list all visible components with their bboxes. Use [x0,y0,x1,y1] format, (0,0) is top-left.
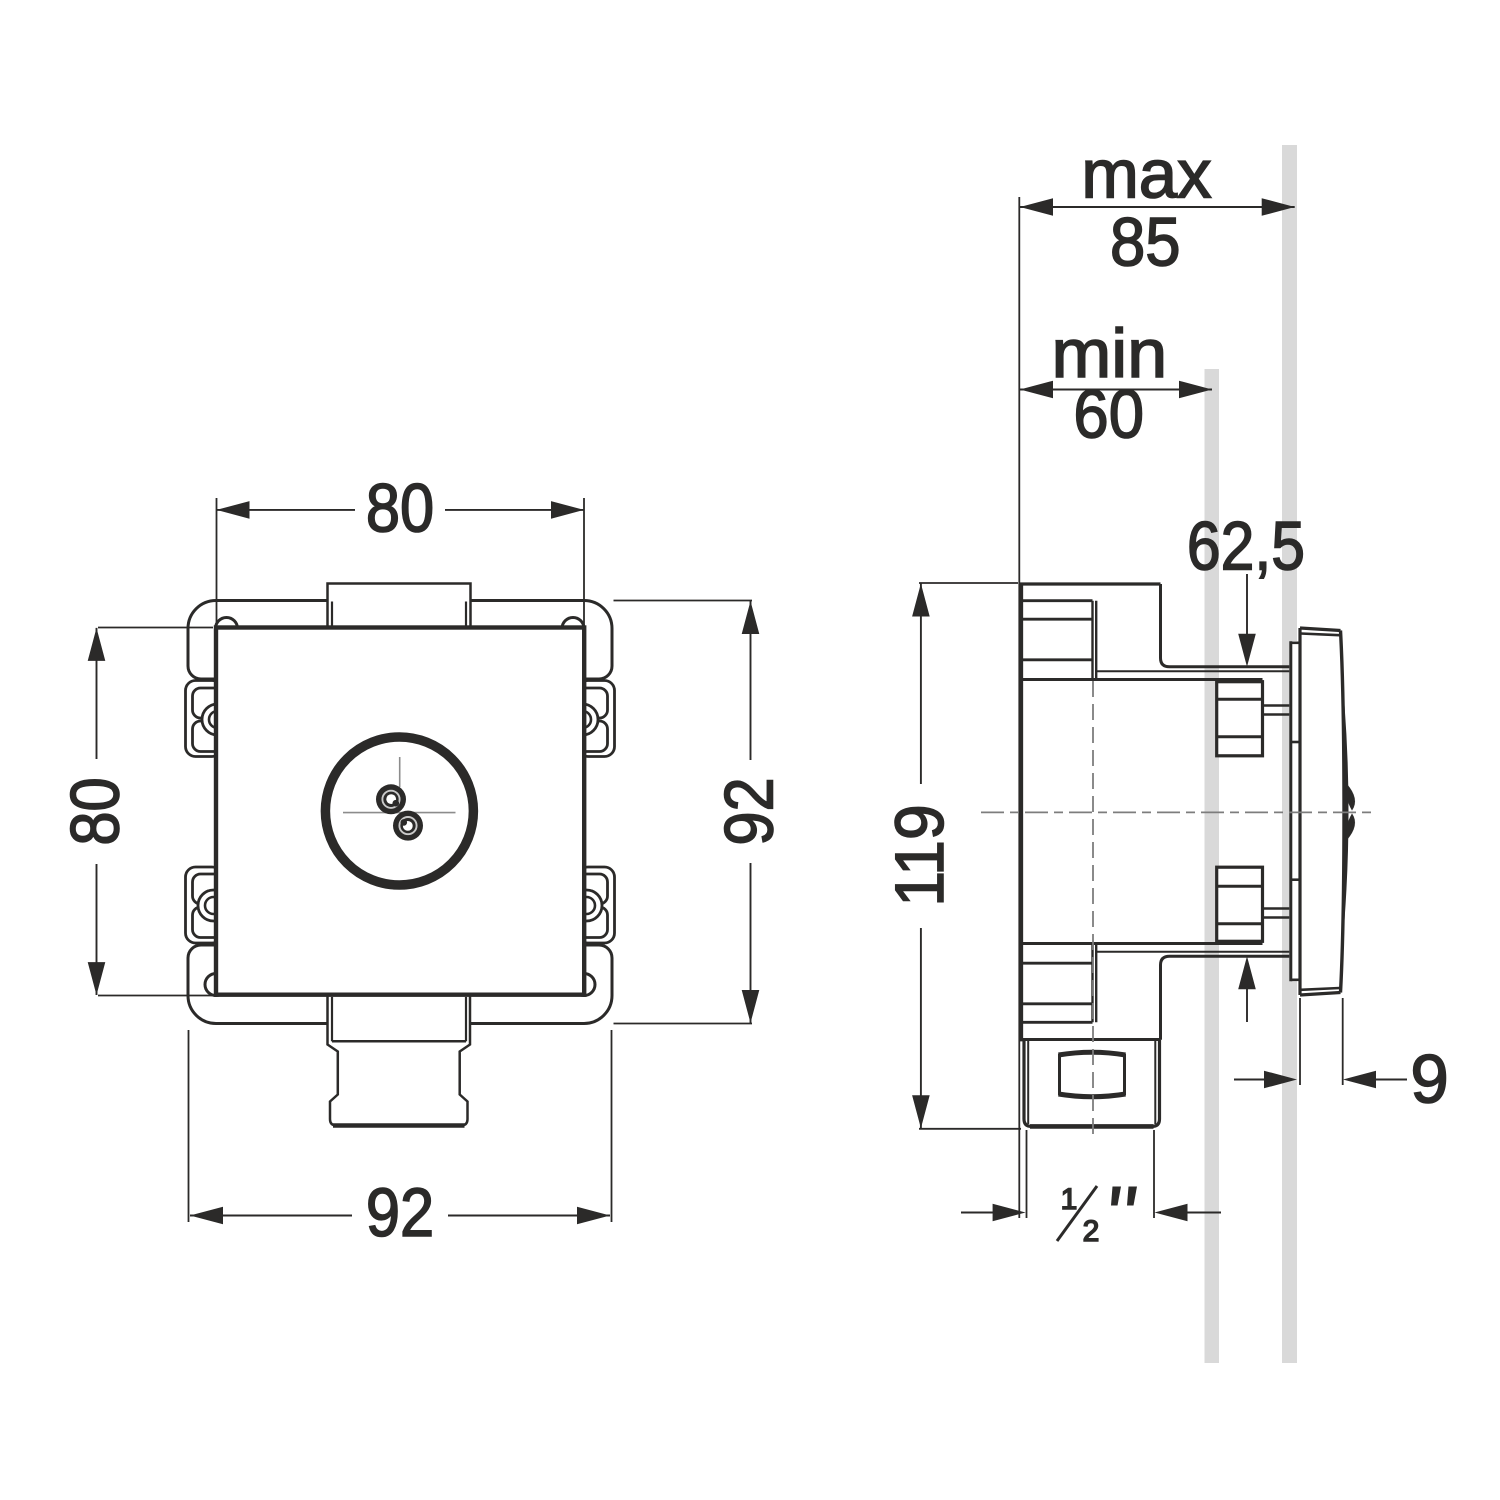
svg-text:92: 92 [366,1174,434,1251]
svg-text:119: 119 [882,804,959,906]
svg-text:85: 85 [1110,204,1181,281]
svg-text:9: 9 [1410,1040,1448,1117]
svg-text:80: 80 [56,777,133,845]
svg-text:max: max [1081,135,1211,212]
svg-text:92: 92 [710,777,787,845]
svg-text:1: 1 [1061,1183,1078,1216]
svg-text:2: 2 [1083,1215,1100,1248]
svg-text:62,5: 62,5 [1187,507,1305,585]
svg-text:60: 60 [1073,376,1144,453]
svg-text:80: 80 [366,469,434,546]
